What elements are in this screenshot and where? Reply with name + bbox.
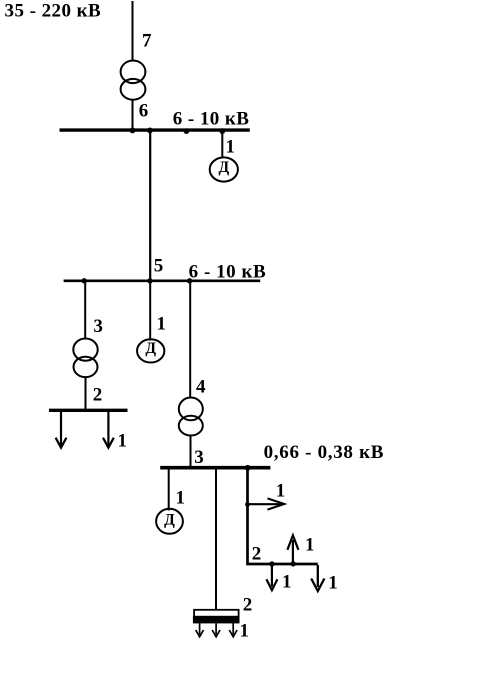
svg-text:3: 3 (93, 316, 103, 337)
svg-text:Д: Д (145, 340, 156, 357)
svg-text:1: 1 (157, 314, 167, 335)
svg-text:1: 1 (226, 137, 236, 158)
svg-text:7: 7 (142, 30, 152, 51)
svg-text:1: 1 (118, 431, 128, 452)
svg-text:1: 1 (176, 488, 186, 509)
svg-text:2: 2 (252, 544, 261, 565)
svg-text:1: 1 (305, 535, 315, 556)
svg-text:1: 1 (276, 480, 286, 501)
svg-text:3: 3 (194, 447, 204, 468)
svg-text:2: 2 (243, 595, 253, 616)
svg-text:1: 1 (328, 572, 338, 593)
svg-text:5: 5 (154, 256, 164, 277)
svg-text:4: 4 (196, 377, 206, 398)
svg-text:1: 1 (282, 572, 292, 593)
svg-text:0,66 - 0,38 кВ: 0,66 - 0,38 кВ (264, 442, 385, 463)
svg-text:6 - 10 кВ: 6 - 10 кВ (189, 262, 267, 283)
svg-text:6: 6 (139, 101, 149, 122)
svg-text:Д: Д (164, 511, 175, 528)
svg-text:Д: Д (218, 159, 229, 176)
svg-text:2: 2 (93, 385, 103, 406)
svg-text:6 - 10 кВ: 6 - 10 кВ (173, 109, 250, 130)
svg-text:1: 1 (240, 621, 250, 642)
svg-text:35 - 220 кВ: 35 - 220 кВ (5, 1, 102, 22)
